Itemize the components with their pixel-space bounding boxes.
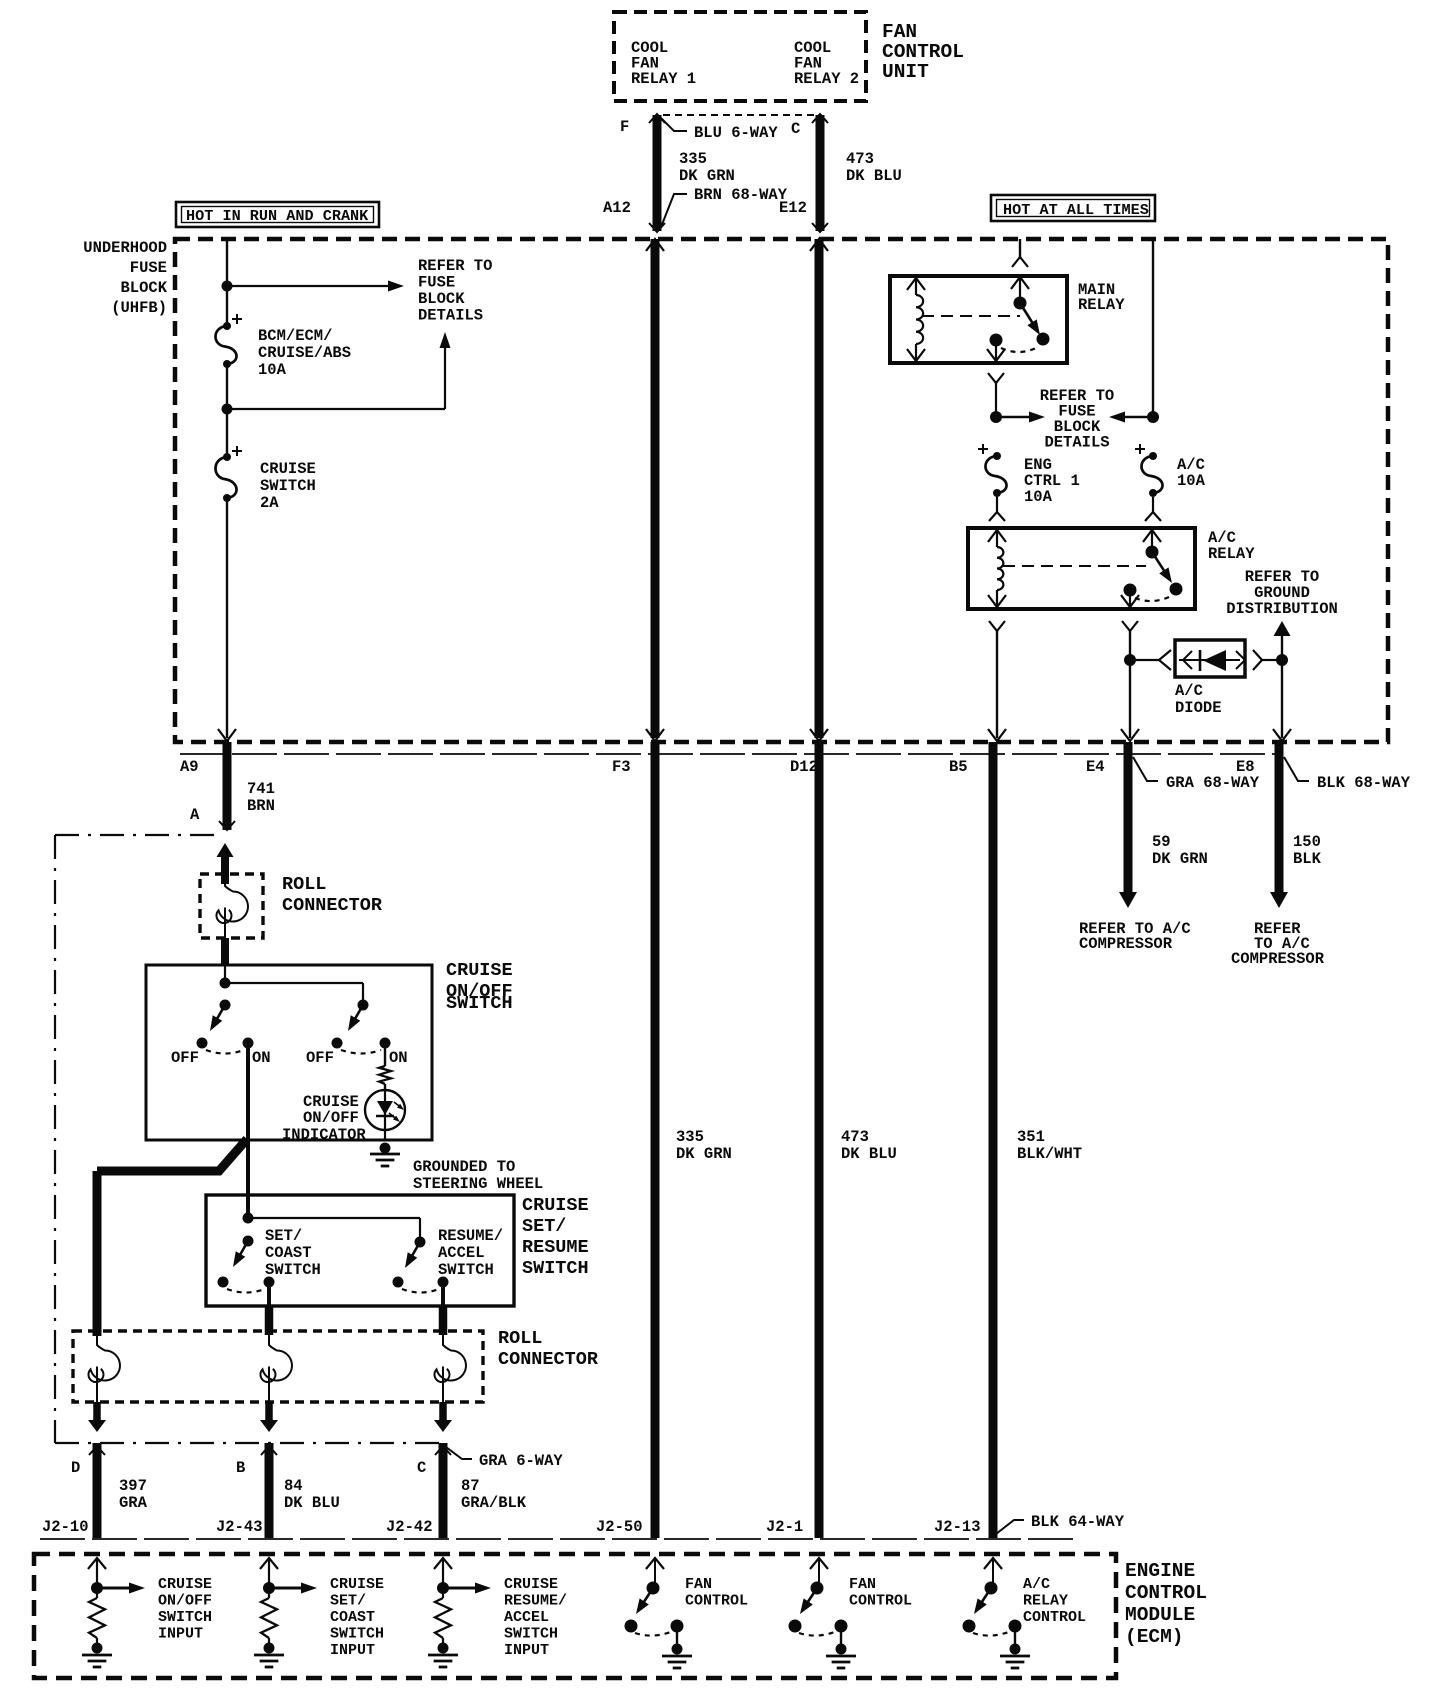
svg-text:473: 473 [846,150,874,168]
svg-text:BRN: BRN [247,797,275,815]
svg-text:DK GRN: DK GRN [676,1145,732,1163]
svg-text:C: C [417,1459,426,1477]
svg-text:CRUISE: CRUISE [522,1195,589,1216]
svg-text:150: 150 [1293,833,1321,851]
svg-text:CRUISE: CRUISE [330,1576,384,1593]
svg-text:351: 351 [1017,1128,1045,1146]
svg-text:J2-13: J2-13 [934,1518,981,1536]
svg-text:INPUT: INPUT [330,1642,375,1659]
svg-text:D12: D12 [790,758,818,776]
svg-text:GRA 68-WAY: GRA 68-WAY [1166,774,1260,792]
svg-text:ACCEL: ACCEL [504,1609,549,1626]
svg-text:SWITCH: SWITCH [446,993,513,1014]
svg-text:F: F [620,118,629,136]
svg-text:SET/: SET/ [522,1216,566,1237]
svg-text:STEERING WHEEL: STEERING WHEEL [413,1175,543,1193]
svg-text:E4: E4 [1086,758,1105,776]
svg-text:J2-10: J2-10 [42,1518,89,1536]
svg-text:87: 87 [461,1477,480,1495]
svg-text:RELAY: RELAY [1208,545,1255,563]
svg-text:C: C [791,120,800,138]
svg-text:BLU 6-WAY: BLU 6-WAY [694,124,778,142]
svg-text:OFF: OFF [306,1049,334,1067]
svg-text:SWITCH: SWITCH [438,1261,494,1279]
svg-text:BLOCK: BLOCK [418,290,465,308]
svg-text:CRUISE: CRUISE [446,960,513,981]
svg-text:BRN 68-WAY: BRN 68-WAY [694,186,788,204]
svg-text:2A: 2A [260,494,279,512]
svg-text:DK GRN: DK GRN [679,167,735,185]
svg-text:A: A [190,806,200,824]
svg-text:(ECM): (ECM) [1125,1626,1184,1648]
svg-text:BLK/WHT: BLK/WHT [1017,1145,1082,1163]
svg-text:FAN: FAN [882,21,917,43]
svg-text:RESUME/: RESUME/ [504,1593,567,1610]
svg-text:RESUME/: RESUME/ [438,1227,503,1245]
svg-text:RELAY: RELAY [1078,296,1125,314]
svg-text:COAST: COAST [330,1609,375,1626]
svg-text:10A: 10A [1024,488,1053,506]
svg-text:COMPRESSOR: COMPRESSOR [1079,935,1173,953]
svg-text:GRA/BLK: GRA/BLK [461,1494,527,1512]
svg-text:DK BLU: DK BLU [284,1494,340,1512]
svg-text:RELAY: RELAY [1023,1593,1068,1610]
svg-text:DK BLU: DK BLU [846,167,902,185]
svg-text:741: 741 [247,780,275,798]
svg-text:BCM/ECM/: BCM/ECM/ [258,327,332,345]
svg-text:UNIT: UNIT [882,61,929,83]
svg-text:HOT AT ALL TIMES: HOT AT ALL TIMES [1003,201,1149,219]
svg-text:ROLL: ROLL [498,1328,542,1349]
svg-text:INPUT: INPUT [504,1642,549,1659]
svg-text:SWITCH: SWITCH [330,1626,384,1643]
svg-text:59: 59 [1152,833,1171,851]
svg-text:RELAY 2: RELAY 2 [794,70,859,88]
svg-text:397: 397 [119,1477,147,1495]
svg-text:DK BLU: DK BLU [841,1145,897,1163]
svg-text:INDICATOR: INDICATOR [282,1126,366,1144]
svg-text:B5: B5 [949,758,968,776]
svg-text:J2-43: J2-43 [216,1518,263,1536]
svg-text:COMPRESSOR: COMPRESSOR [1231,950,1325,968]
svg-text:CONTROL: CONTROL [1023,1609,1086,1626]
svg-text:SWITCH: SWITCH [158,1609,212,1626]
svg-text:COAST: COAST [265,1244,312,1262]
svg-text:DIODE: DIODE [1175,699,1222,717]
svg-text:CONNECTOR: CONNECTOR [498,1349,599,1370]
svg-text:ACCEL: ACCEL [438,1244,485,1262]
svg-text:ENGINE: ENGINE [1125,1560,1195,1582]
svg-text:335: 335 [679,150,707,168]
svg-text:INPUT: INPUT [158,1626,203,1643]
svg-text:SWITCH: SWITCH [265,1261,321,1279]
svg-text:E12: E12 [779,199,807,217]
svg-text:CONTROL: CONTROL [849,1593,912,1610]
svg-text:CRUISE: CRUISE [504,1576,558,1593]
svg-text:DISTRIBUTION: DISTRIBUTION [1226,600,1338,618]
svg-text:CRUISE: CRUISE [158,1576,212,1593]
svg-text:SWITCH: SWITCH [522,1258,589,1279]
svg-text:ROLL: ROLL [282,874,326,895]
svg-text:REFER TO: REFER TO [418,257,492,275]
svg-text:10A: 10A [258,361,287,379]
svg-text:FUSE: FUSE [130,259,167,277]
svg-text:CRUISE/ABS: CRUISE/ABS [258,344,351,362]
svg-text:A/C: A/C [1175,682,1203,700]
svg-text:CRUISE: CRUISE [260,460,316,478]
svg-text:CONTROL: CONTROL [882,41,964,63]
svg-text:BLK: BLK [1293,850,1322,868]
svg-text:D: D [71,1459,80,1477]
svg-text:A9: A9 [180,758,199,776]
svg-text:FAN: FAN [685,1576,712,1593]
svg-text:DETAILS: DETAILS [1044,434,1109,452]
svg-text:BLK 68-WAY: BLK 68-WAY [1317,774,1411,792]
svg-text:F3: F3 [612,758,631,776]
svg-text:OFF: OFF [171,1049,199,1067]
svg-text:84: 84 [284,1477,303,1495]
svg-text:J2-1: J2-1 [766,1518,803,1536]
svg-text:DETAILS: DETAILS [418,307,483,325]
svg-text:HOT IN RUN AND CRANK: HOT IN RUN AND CRANK [186,207,369,225]
svg-text:SWITCH: SWITCH [260,477,316,495]
svg-text:A12: A12 [603,199,631,217]
svg-text:BLOCK: BLOCK [120,279,167,297]
svg-text:CONTROL: CONTROL [1125,1582,1207,1604]
svg-text:GRA 6-WAY: GRA 6-WAY [479,1452,563,1470]
svg-text:UNDERHOOD: UNDERHOOD [83,239,167,257]
svg-text:J2-50: J2-50 [596,1518,643,1536]
svg-text:ON: ON [252,1049,271,1067]
svg-text:BLK 64-WAY: BLK 64-WAY [1031,1513,1125,1531]
svg-text:CONTROL: CONTROL [685,1593,748,1610]
svg-text:FAN: FAN [849,1576,876,1593]
svg-text:RELAY 1: RELAY 1 [631,70,696,88]
svg-text:473: 473 [841,1128,869,1146]
svg-text:SET/: SET/ [330,1593,366,1610]
svg-text:335: 335 [676,1128,704,1146]
svg-text:CONNECTOR: CONNECTOR [282,895,383,916]
svg-text:10A: 10A [1177,472,1206,490]
svg-text:J2-42: J2-42 [386,1518,433,1536]
svg-text:ON: ON [389,1049,408,1067]
svg-text:A/C: A/C [1023,1576,1050,1593]
svg-text:RESUME: RESUME [522,1237,589,1258]
svg-text:FUSE: FUSE [418,274,455,292]
svg-text:ON/OFF: ON/OFF [158,1593,212,1610]
svg-text:(UHFB): (UHFB) [111,299,167,317]
svg-text:GRA: GRA [119,1494,148,1512]
svg-text:B: B [236,1459,245,1477]
svg-text:DK GRN: DK GRN [1152,850,1208,868]
svg-text:SET/: SET/ [265,1227,302,1245]
svg-text:GROUNDED TO: GROUNDED TO [413,1158,515,1176]
svg-text:MODULE: MODULE [1125,1604,1195,1626]
svg-text:ON/OFF: ON/OFF [303,1109,359,1127]
svg-text:SWITCH: SWITCH [504,1626,558,1643]
